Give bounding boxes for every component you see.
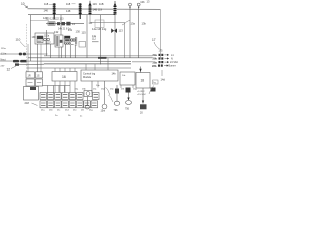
connector plug P3 bbox=[15, 63, 19, 65]
relay contact box 2R bbox=[26, 79, 35, 86]
leader squiggle top bbox=[122, 21, 130, 26]
svg-text:118: 118 bbox=[44, 2, 49, 6]
leader squiggle down 2 bbox=[109, 95, 114, 102]
switch S3 (124) bbox=[66, 22, 70, 26]
svg-text:13a: 13a bbox=[131, 21, 136, 25]
gas valve symbol bbox=[111, 28, 117, 33]
label 10 with leader arrow bbox=[21, 2, 28, 8]
electrode E1 circle bbox=[129, 3, 132, 58]
svg-text:130: 130 bbox=[76, 30, 81, 34]
wire tick x53.5 bbox=[53, 86, 55, 93]
label +5V rows bbox=[137, 91, 146, 96]
svg-text:14B 119: 14B 119 bbox=[93, 8, 103, 12]
labels under terminal rows bbox=[41, 110, 93, 118]
svg-text:15f: 15f bbox=[121, 89, 124, 91]
label 17 squiggle bbox=[152, 38, 160, 49]
inductor L2 (118) bbox=[79, 3, 82, 19]
wire drop x37.5 bbox=[37, 44, 39, 72]
svg-text:12: 12 bbox=[7, 67, 11, 71]
connector blob bottom 1 bbox=[126, 88, 131, 93]
wire left line L bbox=[0, 53, 48, 55]
igniter element 20 bbox=[140, 88, 147, 114]
svg-text:148: 148 bbox=[66, 9, 71, 13]
svg-text:N: N bbox=[171, 58, 173, 61]
connector plug P1 bbox=[19, 53, 26, 56]
svg-text:1R: 1R bbox=[28, 75, 31, 78]
svg-text:13b: 13b bbox=[142, 21, 147, 25]
wire drop x115 bbox=[114, 15, 116, 58]
wire tick x59 bbox=[58, 86, 60, 93]
marks inside T1 bbox=[45, 42, 51, 43]
svg-text:14a 14f 14g: 14a 14f 14g bbox=[92, 27, 107, 31]
svg-text:756: 756 bbox=[125, 107, 130, 110]
svg-text:10b: 10b bbox=[140, 0, 145, 4]
svg-text:10: 10 bbox=[21, 2, 25, 6]
svg-text:16: 16 bbox=[62, 75, 66, 79]
wire coil3 tail bbox=[90, 15, 125, 58]
svg-text:112: 112 bbox=[92, 38, 96, 41]
motor M1 bbox=[101, 81, 107, 112]
svg-text:120 121 122 123: 120 121 122 123 bbox=[46, 18, 65, 21]
leader squiggle down 1 bbox=[106, 88, 111, 96]
svg-text:28a: 28a bbox=[153, 60, 158, 64]
leader dash L1 bbox=[49, 3, 53, 5]
wire tick x133 bbox=[132, 85, 134, 88]
svg-text:18: 18 bbox=[141, 79, 145, 83]
leader squiggle 19 bbox=[149, 86, 155, 95]
relay contact box 1S bbox=[36, 72, 43, 78]
wire drop x65.25 bbox=[64, 45, 66, 59]
svg-text:29a: 29a bbox=[153, 53, 158, 57]
wire top rail B bbox=[28, 14, 115, 16]
svg-text:115: 115 bbox=[82, 30, 87, 34]
bus B1 bbox=[44, 55, 153, 57]
wire drop x70.25 bbox=[69, 45, 71, 59]
svg-text:119: 119 bbox=[93, 2, 98, 6]
leader dash L2b bbox=[85, 8, 89, 10]
wire tick x92 bbox=[91, 81, 93, 93]
svg-text:21f: 21f bbox=[81, 110, 84, 112]
control module box bbox=[81, 70, 118, 81]
svg-text:L1 in: L1 in bbox=[1, 53, 7, 56]
wire drop x100.5 bbox=[100, 15, 102, 65]
relay K1 (132) bbox=[55, 35, 63, 47]
switch S2 (123) bbox=[62, 22, 66, 25]
connector plug P2 bbox=[13, 60, 27, 63]
bus B2 dark patch bbox=[98, 57, 107, 59]
inductor L2b (146) with arrow bbox=[89, 1, 92, 15]
wire drop x41 bbox=[40, 44, 42, 72]
svg-text:175: 175 bbox=[159, 50, 164, 53]
connector blob bottom 2 bbox=[151, 88, 156, 92]
wire drop x46.5 bbox=[46, 30, 48, 56]
svg-text:132: 132 bbox=[54, 30, 59, 34]
svg-text:110: 110 bbox=[16, 38, 21, 42]
inductor L1 (118) bbox=[53, 3, 56, 19]
svg-text:1S: 1S bbox=[37, 75, 40, 78]
connector row R2 (29b N) bbox=[153, 57, 174, 61]
fuse F1 (121) bbox=[48, 22, 55, 25]
svg-text:15m: 15m bbox=[101, 109, 106, 112]
inductor L3 (119) with arrow bbox=[114, 1, 117, 15]
control box 16 bbox=[52, 72, 77, 82]
igniter box 18 bbox=[136, 73, 150, 89]
wire left line N bbox=[0, 60, 131, 62]
terminal row 1 bbox=[40, 93, 99, 100]
relay contact box 2S bbox=[36, 79, 43, 86]
sensor box with circle bbox=[84, 91, 92, 97]
svg-text:796: 796 bbox=[114, 109, 119, 112]
svg-text:Burner: Burner bbox=[169, 65, 176, 68]
relay contact box 1R bbox=[26, 72, 35, 78]
label row 15a bbox=[75, 89, 138, 91]
label 14d bbox=[161, 70, 166, 82]
wire tick x64.5 bbox=[64, 86, 66, 93]
label 12 with arrow bbox=[7, 66, 17, 71]
svg-text:24V: 24V bbox=[1, 65, 5, 67]
wire feed to terminal row bbox=[43, 85, 71, 87]
svg-text:120: 120 bbox=[43, 16, 48, 20]
svg-text:Module: Module bbox=[83, 76, 92, 79]
wire drop x87 bbox=[86, 15, 88, 58]
wire drop x59 bbox=[58, 47, 60, 58]
wire drop x28 bbox=[27, 44, 29, 72]
svg-text:17: 17 bbox=[152, 38, 156, 42]
wire arrow into box 18 bbox=[139, 67, 141, 73]
transformer box T1 (110) bbox=[35, 33, 54, 44]
svg-text:29b: 29b bbox=[153, 57, 158, 61]
svg-text:113: 113 bbox=[119, 28, 124, 32]
wire tick x98 bbox=[97, 81, 99, 88]
wire drop x61 bbox=[60, 15, 62, 35]
svg-text:146: 146 bbox=[44, 9, 49, 13]
wire ticks above boxB bbox=[86, 58, 108, 70]
svg-text:28b: 28b bbox=[152, 64, 157, 68]
igniter module box 218 bbox=[24, 87, 39, 106]
valve module V1 (131) bbox=[65, 36, 78, 45]
svg-text:138: 138 bbox=[32, 36, 37, 39]
pressure switch box (111) bbox=[89, 20, 105, 28]
connector row R1 (29a L1) bbox=[153, 53, 175, 57]
terminal row 2 bbox=[40, 101, 98, 108]
leader dash L2 bbox=[72, 3, 76, 5]
enclosure dashed left edge bbox=[26, 24, 28, 72]
wire ticks under box16 bbox=[55, 81, 75, 93]
svg-text:+15 VDC: +15 VDC bbox=[137, 94, 146, 96]
label 112 block bbox=[92, 35, 99, 42]
bus B4 bbox=[44, 63, 131, 65]
svg-text:Neut: Neut bbox=[1, 58, 6, 61]
svg-text:110a: 110a bbox=[44, 34, 50, 37]
wire right border vertical bbox=[159, 9, 161, 58]
connector row R4 (Burner) bbox=[152, 64, 176, 68]
svg-text:218: 218 bbox=[25, 101, 30, 105]
switch S1 (122) bbox=[57, 22, 60, 25]
wire tick x47.75 bbox=[47, 86, 49, 93]
valve coil V2 bbox=[125, 93, 132, 111]
left border vertical bbox=[29, 15, 31, 61]
wire drop x61.5 bbox=[61, 47, 63, 58]
svg-text:131: 131 bbox=[68, 28, 73, 32]
wire tick x121 bbox=[120, 85, 122, 88]
svg-text:14b: 14b bbox=[112, 72, 117, 75]
svg-text:11B: 11B bbox=[99, 2, 104, 6]
svg-text:115a: 115a bbox=[1, 48, 6, 50]
wire drop x75.25 bbox=[74, 45, 76, 59]
electrode E2 circle bbox=[137, 3, 140, 58]
enclosure top stub bbox=[30, 20, 49, 22]
connector row R3 (+24 VAC) bbox=[153, 60, 179, 64]
interface box bbox=[120, 72, 135, 85]
wire component row bbox=[46, 22, 84, 24]
wire stub row R3 bbox=[132, 61, 153, 63]
bus B5 bbox=[27, 67, 131, 69]
wire ticks above box16 bbox=[55, 68, 75, 72]
wire top rail A bbox=[28, 8, 161, 11]
wire left line G bbox=[15, 63, 44, 65]
wire drop x50.5 bbox=[50, 44, 52, 58]
connector box 14g bbox=[153, 80, 159, 84]
motor M0 under sensor box bbox=[85, 97, 89, 110]
bus B2 main bbox=[28, 57, 153, 59]
svg-text:14d: 14d bbox=[161, 78, 166, 82]
svg-text:118: 118 bbox=[66, 2, 71, 6]
sensor box (113) bbox=[79, 42, 86, 48]
motor M2 bbox=[114, 85, 120, 112]
